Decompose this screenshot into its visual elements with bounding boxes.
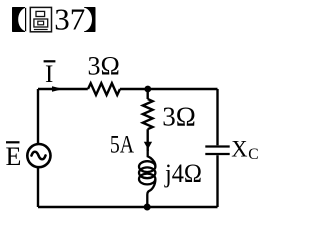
title character 圖	[30, 7, 51, 31]
node dot top junction	[144, 86, 151, 93]
wire top (left segment with current arrow)	[38, 88, 88, 90]
source U1 AC source circle	[27, 144, 50, 167]
wire middle branch (stub below top dot)	[146, 89, 148, 99]
wire left (top segment)	[37, 89, 39, 144]
capacitor C1 XC	[205, 147, 229, 155]
wire bottom	[38, 206, 218, 208]
wire top (right segment)	[120, 88, 218, 90]
label E (with overline)	[6, 141, 22, 171]
svg-text:37: 37	[54, 2, 85, 37]
svg-text:j4Ω: j4Ω	[164, 159, 202, 188]
svg-text:5A: 5A	[110, 131, 134, 158]
wire left (bottom segment)	[37, 167, 39, 207]
title text 37	[54, 2, 85, 37]
current arrow I	[52, 86, 63, 92]
inductor L1 j4ohm (coil)	[139, 150, 155, 208]
label XC	[231, 137, 258, 164]
svg-text:3Ω: 3Ω	[162, 101, 196, 131]
label 3ohm (top resistor)	[88, 51, 120, 80]
current arrow 5A (down)	[144, 142, 152, 150]
label j4ohm	[164, 159, 202, 188]
resistor R1 3ohm (top)	[88, 83, 120, 95]
label 3ohm (middle resistor)	[162, 101, 196, 131]
wire middle branch (arrow shaft)	[146, 129, 148, 151]
svg-text:E: E	[6, 142, 22, 171]
wire right (top segment)	[216, 89, 218, 145]
label 5A	[110, 131, 134, 158]
label I (with overline)	[44, 60, 56, 88]
resistor R2 3ohm (middle)	[143, 99, 153, 129]
title right bracket 】	[84, 7, 96, 32]
svg-text:I: I	[45, 61, 53, 88]
title left bracket 【	[12, 7, 26, 32]
svg-text:3Ω: 3Ω	[88, 51, 120, 80]
svg-text:C: C	[248, 146, 258, 163]
svg-text:X: X	[231, 137, 248, 162]
node dot bottom junction	[144, 204, 151, 211]
wire right (bottom segment)	[216, 155, 218, 207]
